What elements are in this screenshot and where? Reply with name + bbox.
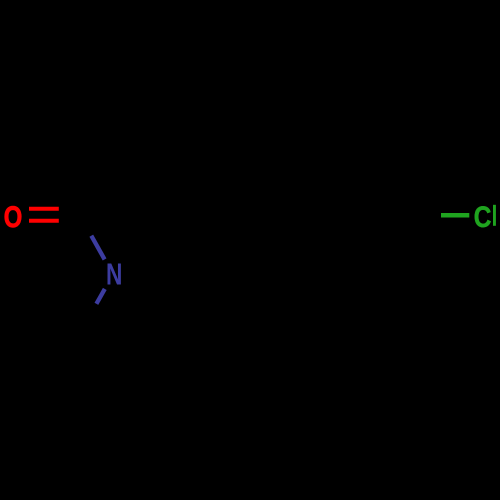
wire: nitrogen half of N-CH3 bond (blue) [96,289,104,304]
wire: carbon half of N-CH3 bond (near-invisible) [80,304,96,333]
svg-text:N: N [106,257,122,292]
svg-text:C: C [474,201,492,234]
wire: nitrogen half of C-N bond (blue) [91,236,104,260]
wire: chlorine half of C-Cl bond (green) [441,213,469,218]
double bond C=O (oxygen half, red) [29,209,59,221]
wire: carbon skeleton chain C1-C2-C3 (near-invisible) [80,156,216,215]
wire: carbon half of C=O double bond (near-invisible) [59,209,81,221]
wire: carbon half of C-Cl bond (near-invisible) [413,213,441,217]
wire: carbon half of C-N bond (near-invisible) [80,215,91,236]
svg-text:O: O [4,201,23,234]
benzene ring (near-invisible carbon bonds) [216,156,413,274]
